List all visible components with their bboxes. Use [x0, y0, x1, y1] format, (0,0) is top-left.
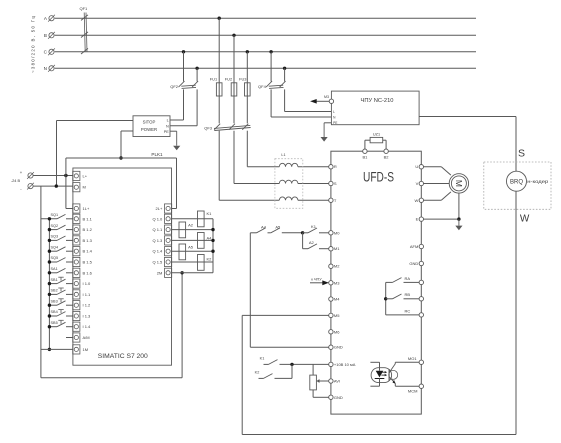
svg-text:Q 1.5: Q 1.5 [153, 260, 164, 265]
svg-text:K1: K1 [207, 211, 213, 216]
svg-text:~380/220 В, 50 Гц: ~380/220 В, 50 Гц [31, 16, 36, 73]
svg-text:PLK1: PLK1 [151, 152, 163, 157]
svg-text:В 1.4: В 1.4 [83, 249, 93, 254]
svg-text:M0: M0 [334, 230, 340, 235]
svg-text:K2: K2 [255, 371, 260, 375]
svg-text:S: S [518, 147, 525, 159]
svg-text:SQ1: SQ1 [51, 213, 59, 217]
svg-text:FU3: FU3 [239, 77, 246, 82]
svg-text:M4: M4 [334, 297, 340, 302]
svg-text:W: W [415, 198, 419, 203]
svg-text:к ЧПУ: к ЧПУ [311, 278, 322, 282]
svg-text:SA1: SA1 [51, 267, 58, 271]
svg-text:QF4: QF4 [258, 84, 267, 89]
svg-text:I 1.1: I 1.1 [83, 292, 92, 297]
svg-text:N: N [166, 124, 169, 128]
svg-text:-24 В: -24 В [11, 178, 21, 183]
svg-text:A5: A5 [188, 245, 194, 250]
svg-text:A2: A2 [309, 240, 315, 245]
svg-text:SB3: SB3 [51, 299, 58, 303]
svg-text:A4: A4 [261, 225, 267, 230]
svg-text:M5: M5 [334, 313, 340, 318]
svg-text:U: U [415, 164, 418, 169]
svg-text:BRQ: BRQ [510, 179, 523, 185]
svg-text:B1: B1 [362, 154, 368, 159]
svg-text:B2: B2 [384, 154, 390, 159]
svg-text:SB1: SB1 [51, 278, 58, 282]
svg-text:L1: L1 [281, 153, 285, 157]
svg-text:SITOP: SITOP [143, 120, 156, 125]
svg-text:A/M: A/M [83, 335, 90, 340]
svg-text:PE: PE [164, 130, 170, 134]
svg-text:+10В 10 мА: +10В 10 мА [334, 362, 356, 367]
svg-text:I 1.0: I 1.0 [83, 281, 92, 286]
svg-text:POWER: POWER [141, 127, 157, 132]
svg-text:L+: L+ [83, 173, 88, 178]
svg-text:W: W [520, 214, 530, 225]
svg-text:AFM: AFM [410, 244, 418, 249]
svg-text:RC: RC [405, 308, 411, 313]
svg-text:I 1.3: I 1.3 [83, 314, 92, 319]
svg-text:E: E [416, 217, 419, 222]
svg-text:SQ2: SQ2 [51, 224, 59, 228]
svg-text:QF3: QF3 [204, 125, 213, 130]
svg-text:SQ4: SQ4 [51, 245, 59, 249]
svg-text:R: R [334, 164, 337, 169]
svg-text:L: L [333, 110, 335, 114]
svg-text:QF1: QF1 [80, 6, 89, 11]
svg-text:Q 1.1: Q 1.1 [153, 227, 164, 232]
svg-text:M: M [454, 180, 464, 187]
svg-text:FU1: FU1 [210, 77, 217, 82]
svg-text:PE: PE [333, 121, 337, 125]
svg-text:A2: A2 [188, 223, 194, 228]
svg-text:В 1.3: В 1.3 [83, 238, 93, 243]
svg-text:L: L [167, 119, 169, 123]
svg-text:M6: M6 [334, 329, 340, 334]
svg-text:I 1.2: I 1.2 [83, 303, 92, 308]
svg-text:1L+: 1L+ [83, 206, 90, 211]
svg-text:N: N [44, 66, 47, 71]
svg-text:В 1.5: В 1.5 [83, 260, 93, 265]
svg-text:SIMATIC S7 200: SIMATIC S7 200 [98, 353, 148, 360]
svg-text:2M: 2M [157, 270, 163, 275]
svg-text:SB5: SB5 [51, 321, 58, 325]
svg-text:RA: RA [405, 276, 411, 281]
svg-text:A4: A4 [207, 235, 213, 240]
svg-text:UZ1: UZ1 [373, 132, 380, 136]
svg-text:ЧПУ NC-210: ЧПУ NC-210 [361, 98, 394, 104]
svg-text:В 1.2: В 1.2 [83, 227, 93, 232]
svg-text:В 1.6: В 1.6 [83, 270, 93, 275]
svg-text:AVI: AVI [334, 379, 340, 384]
svg-text:M3: M3 [334, 280, 340, 285]
svg-text:B: B [44, 33, 47, 38]
svg-text:н-кодер: н-кодер [527, 179, 549, 184]
svg-text:SB4: SB4 [51, 310, 58, 314]
svg-text:M1: M1 [334, 246, 340, 251]
svg-text:M2: M2 [334, 264, 340, 269]
svg-text:MO1: MO1 [408, 356, 417, 361]
svg-text:K1: K1 [311, 224, 317, 229]
svg-text:UFD-S: UFD-S [363, 170, 394, 185]
svg-text:S: S [334, 181, 337, 186]
svg-text:SQ5: SQ5 [51, 256, 59, 260]
svg-text:K1: K1 [260, 356, 265, 360]
svg-text:RB: RB [405, 292, 411, 297]
svg-text:QF2: QF2 [170, 84, 179, 89]
svg-text:I 1.4: I 1.4 [83, 324, 92, 329]
svg-text:Q 1.4: Q 1.4 [153, 249, 164, 254]
svg-text:MCM: MCM [408, 389, 418, 394]
svg-text:V: V [416, 181, 419, 186]
svg-text:SQ3: SQ3 [51, 235, 59, 239]
svg-text:Q 1.0: Q 1.0 [153, 216, 164, 221]
svg-text:GND: GND [334, 395, 343, 400]
svg-text:SB2: SB2 [51, 289, 58, 293]
svg-text:В 1.1: В 1.1 [83, 216, 93, 221]
svg-text:2L+: 2L+ [156, 206, 163, 211]
svg-text:M3: M3 [324, 95, 329, 99]
svg-text:FU2: FU2 [225, 77, 232, 82]
svg-text:A5: A5 [275, 225, 281, 230]
svg-text:GND: GND [334, 345, 343, 350]
svg-text:1M: 1M [83, 347, 89, 352]
svg-text:M: M [83, 185, 86, 190]
svg-text:K2: K2 [207, 257, 213, 262]
svg-text:GND: GND [409, 261, 418, 266]
svg-text:Q 1.3: Q 1.3 [153, 238, 164, 243]
